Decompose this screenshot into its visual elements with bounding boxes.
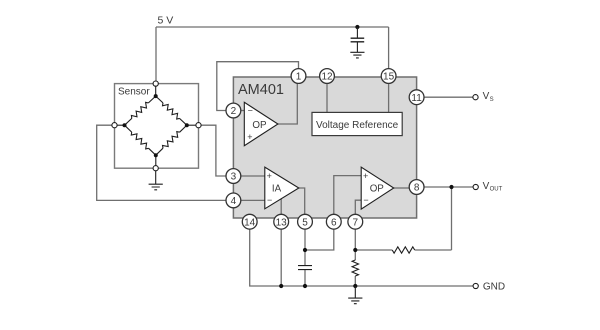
bridge resistor R4 bottom-right [156,125,187,155]
resistor R5 feedback [392,247,415,253]
terminal Vs [473,95,478,100]
pin 7 [348,214,363,229]
wire bridge right stub [187,124,196,126]
wire 5V rail to pin 15 [388,27,390,69]
svg-text:OUT: OUT [490,187,503,193]
wire pin 12 to voltage reference [326,84,328,113]
bridge resistor R2 top-right [156,96,187,125]
IC block AM401 body [233,77,416,218]
svg-text:OP: OP [252,120,267,131]
wire pin 5 down [304,229,306,250]
svg-text:OP: OP [370,184,385,195]
node bridge left [123,123,127,127]
box Voltage Reference [312,112,402,135]
terminal GND [473,283,478,288]
terminal sensor bottom [153,166,158,171]
sensor box [115,84,199,169]
svg-text:S: S [490,97,494,103]
wire pin 7 junction to resistor R5 [355,249,451,251]
svg-text:Sensor: Sensor [118,87,150,98]
wire pin 6 down and link to pin 5 [305,229,334,250]
wire pin 11 to Vs terminal [424,96,473,98]
wire 5V rail [156,26,389,28]
resistor R6 to ground [352,260,358,276]
junction dot pin5 pin6 link [303,248,307,252]
wire sensor left node to pin 4 [97,125,226,200]
label Vs [483,91,494,103]
wire capacitor C2 stems [304,250,306,286]
pin 4 [226,193,241,208]
terminal Vout [473,184,478,189]
svg-text:11: 11 [411,93,422,104]
pin 11 [409,90,424,105]
wire pin 14 down and ground rail [250,229,473,286]
wire op-amp U1 output to pin 1 [278,84,297,125]
wire pin 7 down [354,229,356,250]
ground below sensor [149,171,163,190]
svg-text:5: 5 [302,217,308,228]
wire pin 15 to voltage reference [388,84,390,113]
svg-text:13: 13 [276,217,288,228]
svg-text:8: 8 [414,183,420,194]
pin 13 [274,214,289,229]
svg-text:IA: IA [272,184,282,195]
pin 14 [242,214,257,229]
wire pin 4 to IA inverting input [241,199,265,201]
svg-text:4: 4 [231,196,237,207]
bridge resistor R1 top-left [125,96,156,125]
pin 3 [226,169,241,184]
pin 5 [298,214,313,229]
svg-text:12: 12 [321,72,333,83]
svg-text:5 V: 5 V [158,15,174,27]
pin 15 [381,69,396,84]
capacitor C2 plates [298,266,312,270]
wire feedback loop pin1 to pin2 [217,62,299,111]
svg-text:AM401: AM401 [238,82,284,98]
svg-text:−: − [363,195,368,205]
wire IA output to pin 5 [299,188,305,214]
wire pin 7 to op-amp U2 inverting input [355,200,361,214]
svg-text:+: + [247,132,252,142]
wire resistor R6 stems [354,250,356,286]
wire bridge top stub [155,86,157,96]
ground below rail [348,286,362,304]
wire pin 6 to op-amp U2 noninverting input [334,176,361,215]
svg-text:V: V [483,91,490,102]
svg-text:V: V [483,181,490,192]
ground at capacitor C1 [350,52,364,58]
wire bridge left stub [117,124,124,126]
junction dot rail ground [353,284,357,288]
pin 6 [326,214,341,229]
svg-text:Voltage Reference: Voltage Reference [316,120,399,131]
capacitor C1 [351,27,365,52]
junction dot Vout feedback [449,185,453,189]
svg-text:2: 2 [231,106,237,117]
terminal sensor right [196,123,201,128]
wire pin 13 to IA gain set [280,199,282,215]
junction dot rail pin13 [279,284,283,288]
junction dot rail C2 [303,284,307,288]
node bridge bottom [154,153,158,157]
pin 8 [409,180,424,195]
node bridge top [154,94,158,98]
node bridge right [185,123,189,127]
svg-text:GND: GND [483,282,505,293]
junction dot pin7 node [353,248,357,252]
pin 1 [291,69,306,84]
svg-text:7: 7 [353,217,359,228]
svg-text:−: − [267,195,272,205]
pin 12 [320,69,335,84]
instrumentation amplifier IA [265,167,299,209]
op-amp U1 [244,102,278,145]
svg-text:1: 1 [296,72,302,83]
wire pin 8 to Vout terminal [424,186,473,188]
svg-text:+: + [267,171,272,181]
wire op-amp U2 output to pin 8 [394,187,410,189]
junction dot 5V rail at C1 [355,25,359,29]
svg-text:+: + [363,171,368,181]
op-amp U2 [361,167,394,209]
wire 5V vertical to sensor [155,27,157,84]
pin 2 [226,103,241,118]
wire pin 3 to IA noninverting input [241,175,265,177]
svg-text:3: 3 [231,172,237,183]
svg-text:15: 15 [383,72,395,83]
terminal sensor top [153,81,158,86]
wire Vout feedback drop [451,187,453,250]
svg-text:14: 14 [244,217,256,228]
wire pin 2 to op-amp U1 inverting input [241,110,245,112]
svg-text:6: 6 [331,217,337,228]
wire sensor right node to pin 3 [201,125,226,176]
bridge resistor R3 bottom-left [125,125,156,155]
wire bridge bottom stub [155,155,157,165]
svg-text:−: − [248,106,253,116]
label Vout [483,181,503,193]
wire pin 13 down to ground rail [280,229,282,286]
terminal sensor left [112,123,117,128]
